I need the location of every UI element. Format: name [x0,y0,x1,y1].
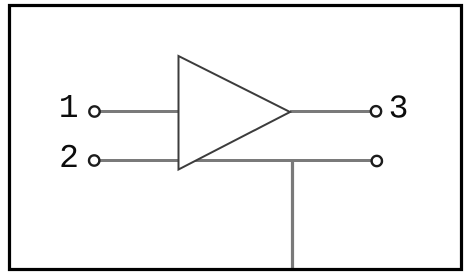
terminal lower right [372,156,382,166]
wire: buffer output to pin 3 [290,110,370,113]
wire: pin 1 input to buffer left edge [100,110,182,113]
wire: lower net from pin 2 across to right terminal [100,159,371,162]
svg-text:3: 3 [389,91,409,128]
svg-text:1: 1 [59,90,79,127]
terminal pin 2 [89,155,99,165]
terminal pin 1 [89,106,99,116]
wire: vertical drop from lower net to bottom frame [291,161,294,269]
terminal pin 3 [371,106,381,116]
svg-text:2: 2 [59,140,79,177]
op-amp U1 (buffer triangle) [179,56,291,170]
